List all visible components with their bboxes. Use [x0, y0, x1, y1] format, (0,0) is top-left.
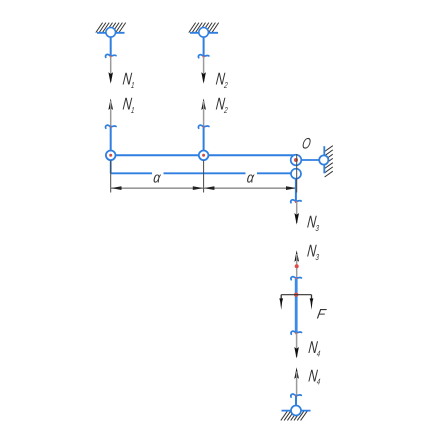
svg-text:α: α	[153, 169, 163, 185]
cut symbol N3 top	[291, 200, 301, 203]
svg-text:F: F	[316, 306, 327, 321]
red node at F crossbar	[294, 293, 298, 297]
rod 2 upper stub	[203, 37, 205, 56]
pin B circle (lower)	[291, 169, 301, 179]
support 2 hatching	[189, 23, 219, 33]
extension line at pin 2	[203, 161, 205, 193]
rod stub below pin B	[295, 179, 297, 201]
cut symbol above F rod	[291, 277, 301, 280]
thick rod	[295, 279, 298, 332]
extension line at right rod	[296, 154, 298, 193]
dim arrows middle	[193, 186, 204, 190]
wall pin circle	[319, 155, 328, 164]
force N1 arrow (up, on lower part)	[108, 98, 113, 110]
red node at cut	[295, 332, 297, 334]
force N3 arrow (down)	[296, 202, 298, 223]
rod 2 lower segment	[203, 127, 205, 151]
link to wall pin	[301, 159, 319, 161]
svg-text:N3: N3	[306, 214, 321, 233]
bottom support pin circle	[291, 406, 301, 416]
red node at cut	[295, 278, 297, 280]
svg-text:N2: N2	[215, 96, 230, 115]
bottom support hatching	[281, 411, 308, 421]
cut symbol rod 2 top	[198, 55, 208, 58]
red node on N3 shaft	[295, 264, 299, 268]
wall line	[323, 146, 325, 173]
rod 1 upper stub	[110, 37, 112, 55]
F crossbar	[281, 294, 311, 296]
svg-text:N2: N2	[215, 71, 230, 90]
pin A circle (beam right end)	[291, 155, 302, 166]
svg-text:N1: N1	[122, 71, 136, 90]
extension line at pin 1	[110, 161, 112, 193]
cut symbol rod 1 bottom	[106, 125, 116, 128]
force N4 arrow (down)	[296, 333, 298, 357]
force N4 arrow (up)	[294, 367, 299, 379]
force N3 arrow (up)	[294, 250, 299, 262]
red node at cut	[295, 395, 297, 397]
red node at cut	[295, 201, 297, 203]
pin 2 circle	[199, 151, 209, 161]
force N2 arrow (up, on lower part)	[201, 98, 206, 110]
wall hatching	[325, 146, 333, 177]
cut symbol rod 1 top	[106, 54, 116, 57]
support 1 base line	[97, 32, 125, 34]
dim arrow left end	[111, 186, 122, 190]
rod 1 lower segment	[110, 127, 112, 151]
dim arrow right end	[286, 186, 297, 190]
rod stub to bottom support	[295, 396, 297, 406]
F right arrow	[311, 295, 313, 302]
red node at cut	[110, 56, 112, 58]
force N1 arrow (down, on upper part)	[110, 57, 112, 82]
lower blue dimension line with text gaps	[110, 160, 112, 173]
pin 1 red center	[109, 154, 112, 157]
bottom support base line	[282, 410, 311, 412]
F left arrow	[280, 295, 282, 302]
support 1 hatching	[96, 23, 126, 33]
pin 1 circle	[106, 151, 116, 161]
force N2 arrow (down, on upper part)	[203, 57, 205, 82]
cut symbol N4 top	[291, 331, 301, 334]
support 2 pin circle	[199, 28, 209, 38]
svg-text:N1: N1	[122, 96, 136, 115]
svg-text:N3: N3	[306, 243, 321, 262]
pin 2 red center	[202, 154, 205, 157]
cut symbol rod 2 bottom	[198, 125, 208, 128]
red node at cut	[110, 126, 112, 128]
cut symbol bottom rod	[291, 394, 301, 397]
pin A red center	[294, 158, 298, 162]
red node at cut	[203, 126, 205, 128]
dimension line	[111, 187, 297, 189]
beam	[111, 154, 297, 156]
support 2 base line	[190, 32, 218, 34]
svg-text:N4: N4	[307, 339, 321, 358]
svg-text:N4: N4	[307, 368, 321, 387]
svg-text:O: O	[301, 135, 313, 152]
red node at cut	[203, 56, 205, 58]
support 1 pin circle	[106, 28, 116, 38]
svg-text:α: α	[246, 169, 256, 185]
